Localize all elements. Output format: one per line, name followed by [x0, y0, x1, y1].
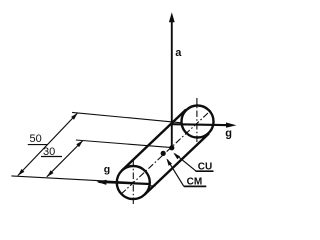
arrowhead dim50 lower: [18, 169, 25, 176]
arrowhead dim50 upper: [71, 113, 78, 120]
vector g right shaft: [172, 124, 232, 125]
cylinder lower end circle: [117, 166, 150, 199]
node CU point: [169, 145, 174, 150]
svg-text:50: 50: [30, 133, 42, 145]
vector g left shaft: [99, 182, 151, 184]
arrowhead axis a: [169, 12, 175, 22]
dimension line 50: [18, 113, 78, 176]
vertical center line upper circle: [196, 98, 198, 143]
leader line CU: [175, 154, 196, 171]
cylinder upper end circle: [182, 106, 214, 138]
svg-text:g: g: [104, 163, 110, 175]
dimension line 30: [47, 140, 83, 176]
arrowhead dim30 upper: [76, 140, 83, 147]
arrowhead dim30 lower: [47, 170, 54, 177]
cylinder lower-right side: [145, 134, 209, 195]
arrowhead leader CM: [166, 158, 172, 165]
extension line to point CU: [76, 140, 172, 148]
node CM point: [161, 151, 166, 156]
svg-text:a: a: [175, 47, 182, 59]
arrowhead g right: [226, 123, 237, 128]
vertical axis a: [171, 20, 173, 148]
svg-text:30: 30: [43, 146, 55, 158]
underline label 30: [41, 156, 62, 158]
leader line CM: [167, 160, 184, 187]
vertical center line lower circle: [132, 160, 134, 206]
wire baseline (ground reference line): [11, 176, 133, 183]
arrowhead leader CU: [173, 153, 180, 160]
cylinder axis center line: [121, 109, 212, 194]
underline label 50: [28, 144, 48, 146]
horizontal center line stub right of lower circle: [149, 185, 156, 187]
cylinder upper-left side: [122, 110, 186, 171]
arrowhead g left: [97, 180, 107, 185]
underline label CU: [196, 170, 214, 172]
extension line to upper cylinder axis: [72, 112, 181, 122]
svg-text:g: g: [225, 128, 232, 140]
underline label CM: [184, 185, 207, 187]
